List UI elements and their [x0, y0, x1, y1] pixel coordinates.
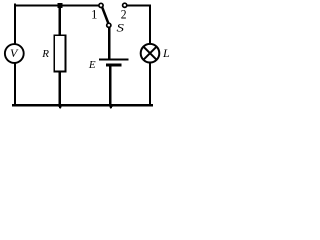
svg-text:R: R [41, 48, 49, 60]
svg-text:S: S [117, 20, 124, 34]
svg-text:E: E [88, 59, 96, 71]
svg-text:1: 1 [91, 7, 97, 21]
svg-text:L: L [162, 46, 170, 60]
